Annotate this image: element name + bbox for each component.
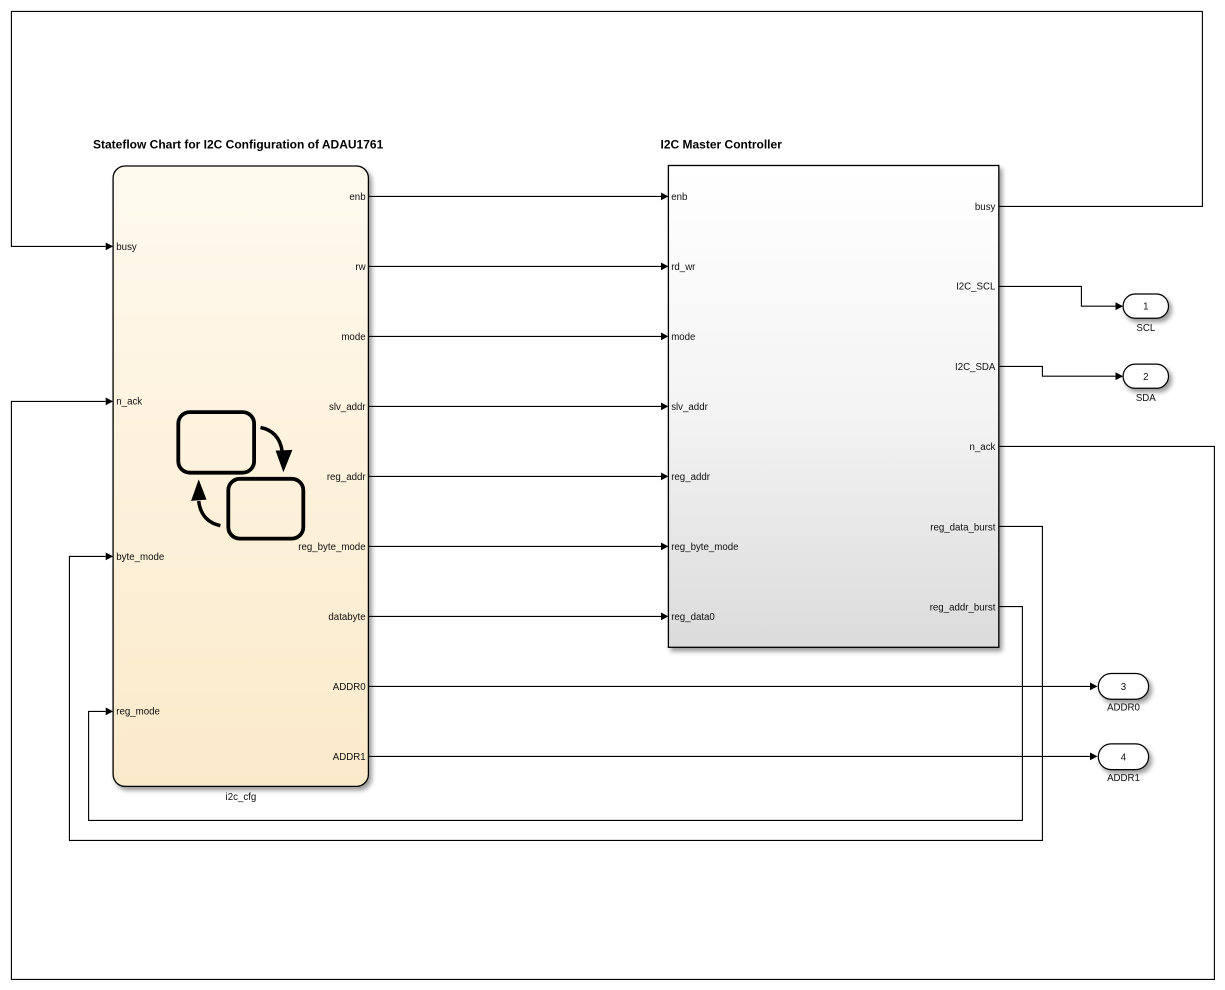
arrowhead busy chart input [106,243,113,251]
wire reg_byte_mode to reg_byte_mode [368,545,661,547]
svg-text:I2C Master Controller: I2C Master Controller [661,138,783,152]
block I2C Master Controller body [668,166,998,648]
chart block i2c_cfg body [113,166,368,786]
svg-text:2: 2 [1143,372,1148,383]
wire mode to mode [368,335,661,337]
svg-text:SDA: SDA [1136,393,1156,404]
svg-text:Stateflow Chart for I2C Config: Stateflow Chart for I2C Configuration of… [93,138,384,152]
svg-text:slv_addr: slv_addr [671,402,708,413]
stateflow icon state rect 1 [178,412,254,473]
wire n_ack feedback loop [11,401,1214,979]
svg-text:reg_byte_mode: reg_byte_mode [298,542,365,553]
svg-text:busy: busy [975,202,996,213]
wire slv_addr to slv_addr [368,405,661,407]
wire reg_addr to reg_addr [368,475,661,477]
svg-text:ADDR0: ADDR0 [1107,703,1140,714]
wire ADDR0 to outport ADDR0 [368,685,1090,687]
arrowhead slv_addr [661,403,668,411]
arrowhead reg_mode chart input [106,708,113,716]
svg-text:SCL: SCL [1136,323,1155,334]
outport block 3 ADDR0 [1098,674,1148,700]
svg-text:reg_data0: reg_data0 [671,612,715,623]
outport block 4 ADDR1 [1098,744,1148,770]
svg-text:ADDR1: ADDR1 [333,752,366,763]
wire reg_data_burst to byte_mode feedback [69,526,1042,840]
arrowhead reg_addr [661,473,668,481]
arrowhead n_ack chart input [106,398,113,406]
svg-text:i2c_cfg: i2c_cfg [226,792,257,803]
svg-text:ADDR1: ADDR1 [1107,773,1140,784]
svg-text:databyte: databyte [328,612,365,623]
outport block 1 SCL [1123,294,1168,318]
wire I2C_SCL to outport SCL [999,286,1116,306]
arrowhead enb [661,193,668,201]
svg-text:reg_byte_mode: reg_byte_mode [671,542,738,553]
outport block 2 SDA [1123,364,1168,388]
arrowhead SCL [1116,302,1124,310]
svg-text:n_ack: n_ack [116,397,142,408]
svg-text:1: 1 [1143,302,1148,313]
svg-text:rd_wr: rd_wr [671,262,696,273]
svg-text:reg_mode: reg_mode [116,707,160,718]
arrowhead SDA [1116,372,1124,380]
svg-text:n_ack: n_ack [970,442,996,453]
wire rw to rd_wr [368,265,661,267]
wire reg_addr_burst to reg_mode feedback [89,607,1023,821]
svg-text:I2C_SCL: I2C_SCL [956,282,996,293]
svg-text:enb: enb [671,192,687,203]
svg-text:reg_addr: reg_addr [671,472,711,483]
arrowhead rd_wr [661,263,668,271]
arrowhead mode [661,333,668,341]
svg-text:byte_mode: byte_mode [116,552,164,563]
svg-text:reg_addr_burst: reg_addr_burst [930,603,996,614]
svg-text:enb: enb [349,192,365,203]
arrowhead byte_mode chart input [106,553,113,561]
svg-text:slv_addr: slv_addr [329,402,366,413]
stateflow icon transition curve down [261,428,283,453]
svg-text:reg_addr: reg_addr [327,472,367,483]
svg-text:reg_data_burst: reg_data_burst [930,522,995,533]
wire busy feedback loop [11,11,1202,246]
arrowhead reg_byte_mode [661,543,668,551]
svg-text:3: 3 [1121,682,1126,693]
wire enb chart to i2c [368,195,661,197]
svg-text:busy: busy [116,242,137,253]
arrowhead ADDR1 [1090,753,1098,761]
stateflow icon state rect 2 [228,479,303,539]
wire databyte to reg_data0 [368,615,661,617]
svg-text:mode: mode [671,332,695,343]
arrowhead ADDR0 [1090,683,1098,691]
svg-text:ADDR0: ADDR0 [333,682,366,693]
wire ADDR1 to outport ADDR1 [368,755,1090,757]
svg-text:rw: rw [355,262,366,273]
stateflow icon transition curve up [199,501,221,526]
arrowhead reg_data0 [661,613,668,621]
stateflow icon arrowhead down [276,450,293,472]
stateflow icon arrowhead up [191,479,206,501]
svg-text:mode: mode [341,332,365,343]
wire I2C_SDA to outport SDA [999,366,1116,376]
svg-text:I2C_SDA: I2C_SDA [955,362,996,373]
svg-text:4: 4 [1121,752,1127,763]
